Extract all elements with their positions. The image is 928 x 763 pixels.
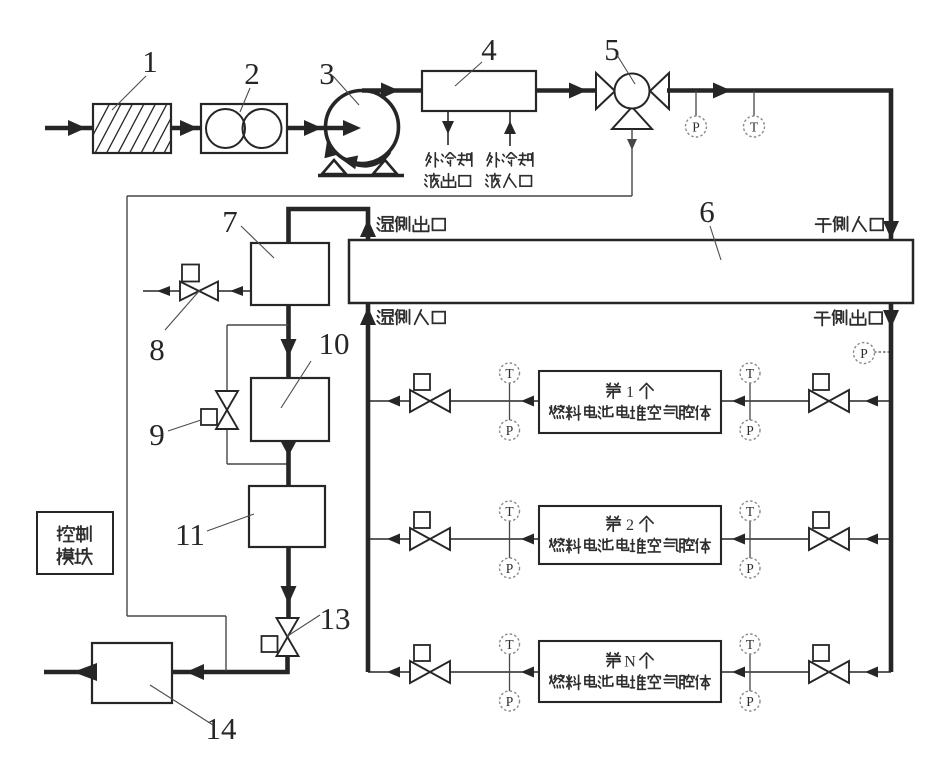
svg-text:8: 8	[149, 332, 165, 367]
svg-text:T: T	[746, 366, 755, 381]
svg-text:P: P	[506, 561, 514, 576]
svg-text:P: P	[506, 694, 514, 709]
svg-text:1: 1	[142, 44, 158, 79]
svg-text:T: T	[746, 637, 755, 652]
svg-text:11: 11	[175, 517, 205, 552]
svg-text:T: T	[505, 366, 514, 381]
svg-text:T: T	[746, 504, 755, 519]
svg-text:T: T	[505, 504, 514, 519]
svg-text:10: 10	[319, 326, 350, 361]
svg-text:6: 6	[699, 194, 715, 229]
svg-text:P: P	[506, 423, 514, 438]
svg-text:4: 4	[481, 32, 497, 67]
svg-text:T: T	[505, 637, 514, 652]
svg-text:14: 14	[206, 711, 238, 746]
svg-text:P: P	[746, 561, 754, 576]
svg-text:13: 13	[320, 601, 351, 636]
svg-text:5: 5	[604, 32, 620, 67]
svg-text:T: T	[750, 119, 759, 134]
svg-text:N: N	[624, 653, 636, 670]
svg-text:P: P	[860, 346, 868, 361]
svg-text:9: 9	[149, 417, 165, 452]
svg-text:3: 3	[319, 56, 335, 91]
svg-text:2: 2	[244, 56, 260, 91]
svg-text:P: P	[692, 119, 700, 134]
svg-text:P: P	[746, 423, 754, 438]
svg-text:P: P	[746, 694, 754, 709]
svg-text:2: 2	[626, 517, 634, 534]
svg-text:7: 7	[222, 204, 238, 239]
svg-text:1: 1	[626, 384, 634, 401]
